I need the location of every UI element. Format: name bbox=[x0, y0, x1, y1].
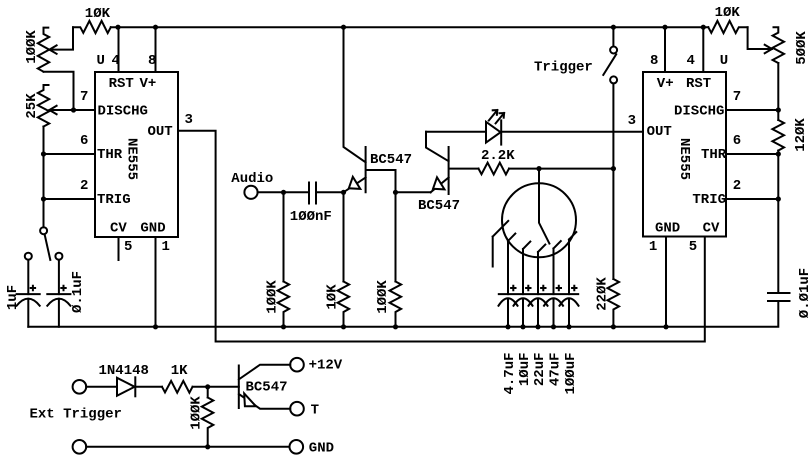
svg-text:U: U bbox=[97, 53, 105, 69]
svg-text:22uF: 22uF bbox=[532, 353, 548, 387]
svg-text:1ØØK: 1ØØK bbox=[265, 280, 281, 314]
wire pin 4 RST right bbox=[702, 27, 704, 72]
svg-text:8: 8 bbox=[650, 53, 658, 69]
node rail pin8R bbox=[662, 25, 667, 30]
node gnd 100K-2 bbox=[393, 324, 398, 329]
svg-text:1ØØK: 1ØØK bbox=[189, 396, 205, 430]
node gnd 47uF bbox=[551, 324, 556, 329]
node rail pin4R bbox=[701, 25, 706, 30]
svg-text:GND: GND bbox=[309, 441, 334, 457]
svg-text:V+: V+ bbox=[657, 76, 674, 92]
resistor 100K audio bbox=[278, 192, 290, 326]
svg-text:BC547: BC547 bbox=[246, 380, 288, 396]
svg-text:1ØK: 1ØK bbox=[85, 6, 111, 22]
node cap-base junction bbox=[341, 190, 346, 195]
svg-text:Ø.1uF: Ø.1uF bbox=[70, 271, 86, 313]
potentiometer 500K body bbox=[773, 27, 784, 63]
svg-text:U: U bbox=[720, 53, 728, 69]
resistor 10K base bbox=[338, 192, 350, 326]
svg-text:OUT: OUT bbox=[148, 124, 173, 140]
wire TRIG pin 2 right bbox=[726, 198, 778, 200]
svg-text:1N4148: 1N4148 bbox=[99, 363, 149, 379]
svg-text:1ØØuF: 1ØØuF bbox=[563, 353, 579, 395]
resistor 10K left bbox=[73, 21, 111, 33]
IC U2 NE555 right box bbox=[643, 72, 726, 237]
svg-text:7: 7 bbox=[80, 89, 88, 105]
node Q1-Q2 junction bbox=[393, 190, 398, 195]
svg-text:RST: RST bbox=[109, 76, 134, 92]
node rail pin4L bbox=[115, 25, 120, 30]
terminal +12V circle bbox=[290, 358, 304, 372]
svg-text:GND: GND bbox=[140, 221, 165, 237]
wire trigger vertical bbox=[612, 27, 614, 279]
svg-text:DISCHG: DISCHG bbox=[98, 104, 148, 120]
wire top V+ rail bbox=[111, 26, 709, 28]
switch Trigger bottom circle bbox=[610, 76, 617, 83]
wire 25K bottom to THR TRIG switch bbox=[43, 127, 45, 228]
polarity plus 0.1uF bbox=[60, 285, 66, 291]
polarity plus 1uF bbox=[30, 285, 36, 291]
polarity plus 47uF bbox=[556, 285, 562, 291]
svg-text:Audio: Audio bbox=[231, 171, 273, 187]
wire DISCHG pin 7 right bbox=[726, 109, 778, 111]
svg-text:GND: GND bbox=[655, 221, 680, 237]
rotary switch circle bbox=[502, 183, 576, 257]
svg-text:3: 3 bbox=[185, 112, 193, 128]
wire ground rail bbox=[28, 301, 778, 327]
resistor 10K right bbox=[708, 21, 747, 33]
svg-text:6: 6 bbox=[733, 133, 741, 149]
svg-text:2: 2 bbox=[733, 178, 741, 194]
capacitor 1uF bbox=[17, 294, 40, 327]
wire Q1 to Q2 emitter bbox=[396, 191, 431, 193]
capacitor 100uF arc bbox=[560, 298, 579, 327]
svg-text:1ØØK: 1ØØK bbox=[375, 280, 391, 314]
rotary switch wiper bbox=[539, 169, 549, 244]
wire OUT left 555 to lower rail bbox=[178, 131, 705, 342]
node gnd 22uF bbox=[535, 324, 540, 329]
svg-text:CV: CV bbox=[110, 221, 127, 237]
svg-text:5: 5 bbox=[124, 239, 132, 255]
rotary contact 5 bbox=[569, 232, 576, 294]
svg-text:12ØK: 12ØK bbox=[793, 118, 809, 152]
svg-text:2: 2 bbox=[80, 178, 88, 194]
node THR left bbox=[41, 151, 46, 156]
switch Trigger arm bbox=[603, 54, 616, 75]
svg-text:DISCHG: DISCHG bbox=[674, 104, 724, 120]
svg-text:5: 5 bbox=[689, 239, 697, 255]
wire pin 1 GND left bbox=[155, 237, 157, 327]
wire switch to caps bbox=[28, 260, 59, 294]
node gnd 100K bbox=[281, 324, 286, 329]
svg-text:THR: THR bbox=[701, 147, 727, 163]
node rail pin8L bbox=[153, 25, 158, 30]
svg-text:25K: 25K bbox=[24, 93, 40, 119]
svg-text:1uF: 1uF bbox=[5, 285, 21, 310]
wire TRIG pin 2 bbox=[44, 198, 96, 200]
svg-text:22ØK: 22ØK bbox=[594, 277, 610, 311]
svg-text:3: 3 bbox=[628, 113, 636, 129]
svg-text:RST: RST bbox=[686, 76, 711, 92]
wire ext ground bbox=[86, 446, 289, 448]
node gnd 4.7uF bbox=[505, 324, 510, 329]
wire 120K to cap 0.01uF bbox=[777, 151, 779, 294]
svg-text:1ØK: 1ØK bbox=[715, 5, 741, 21]
node DISCHG right bbox=[776, 107, 781, 112]
potentiometer 500K wiper arrow bbox=[765, 45, 772, 53]
svg-text:8: 8 bbox=[148, 53, 156, 69]
svg-text:T: T bbox=[311, 403, 319, 419]
svg-text:6: 6 bbox=[80, 133, 88, 149]
svg-text:OUT: OUT bbox=[647, 124, 672, 140]
transistor Q3 BC547 bbox=[239, 365, 290, 409]
polarity plus 100uF bbox=[571, 285, 577, 291]
wire input to diode bbox=[86, 386, 117, 388]
LED D1 light arrows bbox=[489, 110, 498, 120]
node TRIG left bbox=[41, 196, 46, 201]
resistor 220K bbox=[608, 279, 620, 327]
svg-text:Ext Trigger: Ext Trigger bbox=[30, 407, 122, 423]
terminal Ext Trigger input circle bbox=[73, 380, 87, 394]
node rail Q1 collector bbox=[341, 25, 346, 30]
diode 1N4148 cathode bar bbox=[134, 377, 136, 396]
polarity plus 4.7uF bbox=[510, 285, 516, 291]
svg-text:BC547: BC547 bbox=[370, 152, 412, 168]
wire 2.2K to trigger line bbox=[509, 168, 613, 170]
svg-text:1: 1 bbox=[162, 239, 170, 255]
node gnd 100uF bbox=[566, 324, 571, 329]
transistor Q1 emitter arrow bbox=[349, 177, 361, 189]
svg-text:V+: V+ bbox=[140, 76, 157, 92]
svg-text:+12V: +12V bbox=[309, 358, 343, 374]
wire pin 4 RST left bbox=[118, 27, 120, 72]
polarity plus 22uF bbox=[540, 285, 546, 291]
wire Q2 collector to LED bbox=[426, 131, 486, 133]
capacitor 100nF bbox=[309, 183, 316, 204]
node gnd 10K bbox=[341, 324, 346, 329]
switch Trigger top circle bbox=[610, 47, 617, 54]
wire pin 8 V+ left bbox=[155, 27, 157, 72]
svg-text:1ØØnF: 1ØØnF bbox=[290, 209, 332, 225]
node gnd 10uF bbox=[520, 324, 525, 329]
node TRIG right bbox=[776, 196, 781, 201]
wire pin 8 V+ right bbox=[664, 27, 666, 72]
wire 100K bottom to DISCHG bbox=[44, 72, 74, 110]
transistor Q2 emitter arrow bbox=[433, 177, 445, 189]
svg-text:4: 4 bbox=[112, 53, 120, 69]
IC U1 NE555 left box bbox=[95, 72, 178, 237]
wire pin 1 GND right bbox=[665, 237, 667, 327]
terminal GND circle bbox=[290, 440, 304, 454]
svg-text:TRIG: TRIG bbox=[692, 192, 726, 208]
svg-text:THR: THR bbox=[97, 147, 123, 163]
node gnd pin1L bbox=[153, 324, 158, 329]
polarity plus 10uF bbox=[525, 285, 531, 291]
wire left corner to 100K wiper bbox=[49, 27, 73, 49]
svg-text:TRIG: TRIG bbox=[97, 192, 131, 208]
transistor Q2 BC547 bbox=[426, 132, 479, 194]
capacitor 22uF arc bbox=[529, 298, 548, 327]
rotary contact free bbox=[493, 221, 509, 267]
svg-text:5ØØK: 5ØØK bbox=[794, 31, 810, 65]
node THR right bbox=[776, 151, 781, 156]
svg-text:1ØØK: 1ØØK bbox=[24, 30, 40, 64]
rotary contact 3 bbox=[538, 245, 545, 295]
resistor 2.2K bbox=[479, 163, 510, 175]
switch SW1 arm bbox=[45, 235, 51, 260]
potentiometer 25K wiper arrow bbox=[49, 106, 56, 114]
rotary contact 2 bbox=[523, 242, 530, 295]
capacitor 47uF arc bbox=[544, 298, 563, 327]
node trigger 2.2K bbox=[611, 166, 616, 171]
svg-text:2.2K: 2.2K bbox=[481, 148, 515, 164]
wire Audio to cap bbox=[258, 191, 309, 193]
svg-text:1K: 1K bbox=[171, 363, 188, 379]
svg-text:BC547: BC547 bbox=[418, 198, 460, 214]
wire pin 5 CV stub left bbox=[118, 237, 120, 260]
resistor 120K bbox=[772, 120, 784, 151]
diode 1N4148 triangle bbox=[117, 378, 135, 396]
LED D1 triangle bbox=[486, 122, 501, 143]
resistor 1K bbox=[162, 381, 193, 393]
capacitor bank plates bbox=[499, 293, 578, 295]
transistor Q1 BC547 bbox=[344, 27, 396, 192]
svg-text:NE555: NE555 bbox=[676, 138, 692, 180]
switch SW1 pole circle bbox=[40, 227, 47, 234]
node rotary wiper top bbox=[536, 166, 541, 171]
wire 1K to Q3 base bbox=[193, 386, 239, 388]
terminal ext ground left circle bbox=[73, 440, 87, 454]
switch SW1 throw circles bbox=[25, 253, 32, 260]
node rail trigger bbox=[611, 25, 616, 30]
capacitor 0.01uF bbox=[768, 293, 790, 301]
transistor Q3 emitter arrow bbox=[244, 394, 256, 407]
node Q3 gnd junction bbox=[205, 444, 210, 449]
capacitor 10uF arc bbox=[514, 298, 533, 327]
potentiometer 100K wiper arrow bbox=[49, 45, 56, 53]
resistor 100K emitter bbox=[390, 192, 402, 326]
capacitor 4.7uF arc bbox=[499, 298, 518, 327]
rotary contact 4 bbox=[554, 241, 561, 294]
svg-text:Trigger: Trigger bbox=[534, 60, 593, 76]
wire 10K right to 500K wiper bbox=[748, 27, 772, 49]
wire LED to OUT right 555 bbox=[501, 131, 643, 133]
node DISCHG left bbox=[71, 107, 76, 112]
capacitor 0.1uF bbox=[47, 294, 70, 327]
potentiometer 25K body bbox=[38, 85, 49, 127]
svg-text:1ØuF: 1ØuF bbox=[517, 353, 533, 387]
svg-text:Ø.Ø1uF: Ø.Ø1uF bbox=[797, 268, 810, 318]
svg-text:7: 7 bbox=[733, 89, 741, 105]
terminal T circle bbox=[290, 402, 304, 416]
LED D1 cathode bar bbox=[500, 120, 502, 144]
wire THR pin 6 bbox=[44, 153, 96, 155]
wire THR pin 6 right bbox=[726, 153, 778, 155]
svg-text:CV: CV bbox=[703, 221, 720, 237]
svg-text:1: 1 bbox=[649, 239, 657, 255]
wire diode to 1K bbox=[135, 386, 162, 388]
svg-text:NE555: NE555 bbox=[124, 138, 140, 180]
node audio junction bbox=[281, 190, 286, 195]
terminal Audio circle bbox=[244, 186, 257, 199]
wire cap to Q1 bbox=[316, 191, 344, 193]
node gnd 220K bbox=[611, 324, 616, 329]
potentiometer 100K body bbox=[38, 28, 49, 72]
svg-text:47uF: 47uF bbox=[548, 353, 564, 387]
svg-text:1ØK: 1ØK bbox=[325, 284, 341, 310]
node Q3 base junction bbox=[205, 384, 210, 389]
svg-text:4: 4 bbox=[687, 53, 695, 69]
node gnd pin1R bbox=[663, 324, 668, 329]
wire DISCHG pin 7 bbox=[49, 109, 95, 111]
wire 500K to 120K bbox=[777, 63, 779, 120]
svg-text:4.7uF: 4.7uF bbox=[502, 353, 518, 395]
resistor 100K pulldown bbox=[202, 387, 214, 447]
rotary contact 1 bbox=[508, 234, 515, 295]
